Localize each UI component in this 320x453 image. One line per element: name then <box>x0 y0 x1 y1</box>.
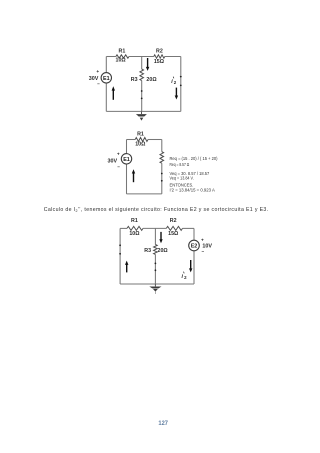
wire: circuit2 left side upper <box>126 140 128 154</box>
svg-text:127: 127 <box>158 420 168 427</box>
resistor R2 circuit3 <box>166 226 182 230</box>
junction dot circuit3 middle branch (upper) <box>155 263 157 265</box>
ground circuit3 <box>154 284 156 286</box>
svg-text:−: − <box>117 164 120 169</box>
svg-text:R1: R1 <box>137 131 144 137</box>
resistor Req circuit2 (right side) <box>160 152 164 164</box>
resistor R1 circuit1 <box>116 55 129 58</box>
node dot circuit2 right wire (lower) <box>161 180 163 182</box>
current arrow down into R3, circuit1 <box>147 58 149 67</box>
wire: circuit1 left side lower <box>105 83 107 111</box>
wire: circuit2 top-right segment <box>148 139 162 141</box>
junction dot circuit1 middle branch (lower) <box>141 98 143 100</box>
svg-text:10Ω: 10Ω <box>116 57 127 63</box>
svg-text:Req = 8.57 Ω: Req = 8.57 Ω <box>170 162 190 167</box>
wire: circuit1 right side <box>180 57 182 112</box>
svg-text:Veq = 13.84 V.: Veq = 13.84 V. <box>170 176 194 181</box>
wire: circuit2 top-left segment <box>127 139 136 141</box>
svg-text:+: + <box>201 239 204 244</box>
svg-text:−: − <box>201 249 204 254</box>
svg-text:2: 2 <box>184 275 187 280</box>
svg-text:20Ω: 20Ω <box>146 77 157 83</box>
ground circuit1 <box>141 111 143 114</box>
svg-text:R1: R1 <box>131 218 138 224</box>
svg-text:R2: R2 <box>170 218 177 224</box>
junction dot circuit3 middle branch (lower) <box>155 269 157 271</box>
wire: circuit3 left side <box>119 228 121 284</box>
source E1 circuit1 <box>101 73 111 83</box>
svg-text:10Ω: 10Ω <box>129 231 140 237</box>
wire: circuit3 top-middle segment <box>143 227 166 229</box>
resistor R2 circuit1 <box>154 55 165 58</box>
wire: circuit1 middle branch upper <box>141 57 143 70</box>
resistor R1 circuit3 <box>127 226 143 230</box>
svg-text:R1: R1 <box>119 48 126 54</box>
junction dot circuit1 middle branch (upper) <box>141 90 143 92</box>
svg-text:R2: R2 <box>156 48 163 54</box>
current arrow up, circuit2 <box>133 173 135 182</box>
svg-text:30V: 30V <box>108 159 118 165</box>
wire: circuit2 bottom side <box>127 193 162 195</box>
wire: circuit2 left side lower <box>126 164 128 194</box>
svg-text:Req = (15 . 20) / ( 15 + 20): Req = (15 . 20) / ( 15 + 20) <box>170 156 219 161</box>
svg-text:I’2 = 13.84/15 = 0.923 A: I’2 = 13.84/15 = 0.923 A <box>170 187 215 192</box>
svg-text:+: + <box>96 70 99 75</box>
resistor R3 circuit3 <box>154 245 158 255</box>
svg-text:E1: E1 <box>123 157 130 163</box>
svg-text:20Ω: 20Ω <box>158 248 169 254</box>
node dot circuit3 left wire (lower) <box>119 253 121 255</box>
wire: circuit1 top-middle segment <box>129 56 154 58</box>
wire: circuit3 top-left segment <box>120 227 127 229</box>
node dot circuit1 right wire (upper) <box>180 76 182 78</box>
current arrow down, circuit3 right branch <box>190 260 192 269</box>
svg-text:2: 2 <box>174 80 177 85</box>
wire: circuit1 top-right segment <box>165 56 181 58</box>
wire: circuit2 right side upper <box>161 140 163 152</box>
wire: circuit1 bottom side <box>106 110 181 112</box>
wire: circuit1 left side upper <box>105 57 107 73</box>
node dot circuit1 right wire (lower) <box>180 85 182 87</box>
svg-text:E1: E1 <box>103 76 110 82</box>
svg-text:R3: R3 <box>144 248 151 254</box>
current arrow up, circuit1 left branch <box>112 90 114 100</box>
wire: circuit1 top-left segment <box>106 56 116 58</box>
wire: circuit3 middle branch lower <box>154 255 156 285</box>
svg-text:+: + <box>117 152 120 157</box>
wire: circuit3 bottom side <box>120 283 194 285</box>
wire: circuit3 right side lower <box>193 251 195 284</box>
svg-text:10Ω: 10Ω <box>135 142 146 148</box>
current arrow down into R3, circuit3 <box>160 232 162 240</box>
current arrow up, circuit3 left branch <box>126 264 128 272</box>
node dot circuit3 left wire (upper) <box>119 244 121 246</box>
wire: circuit3 middle branch upper <box>154 228 156 244</box>
svg-text:15Ω: 15Ω <box>154 59 165 65</box>
wire: circuit3 top-right segment <box>183 227 195 229</box>
wire: circuit3 right side upper <box>193 228 195 240</box>
svg-text:R3: R3 <box>131 77 138 83</box>
wire: circuit2 right side lower <box>161 163 163 194</box>
node dot circuit2 right wire (upper) <box>161 173 163 175</box>
wire: circuit1 middle branch lower <box>141 81 143 112</box>
svg-text:15Ω: 15Ω <box>168 231 179 237</box>
source E2 circuit3 <box>189 240 200 251</box>
source E1 circuit2 <box>121 154 131 164</box>
current arrow down, circuit1 right branch <box>175 88 177 96</box>
svg-text:Calculo de I2’’, tenemos el si: Calculo de I2’’, tenemos el siguiente ci… <box>44 207 269 213</box>
resistor R1 circuit2 <box>135 138 148 142</box>
resistor R3 circuit1 <box>140 69 144 81</box>
svg-text:−: − <box>97 82 100 87</box>
svg-text:E2: E2 <box>191 244 198 250</box>
